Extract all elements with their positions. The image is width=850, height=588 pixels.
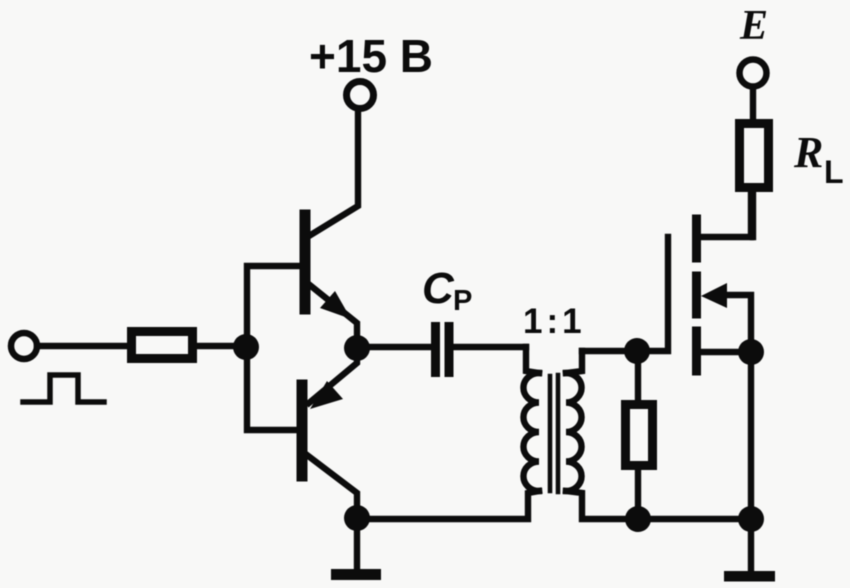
svg-text:1:1: 1:1 [523,302,586,341]
svg-text:L: L [824,154,844,190]
svg-text:E: E [739,3,768,49]
svg-text:R: R [793,128,823,177]
svg-text:P: P [453,285,472,317]
svg-text:+15 В: +15 В [309,30,433,82]
svg-text:C: C [422,264,455,313]
